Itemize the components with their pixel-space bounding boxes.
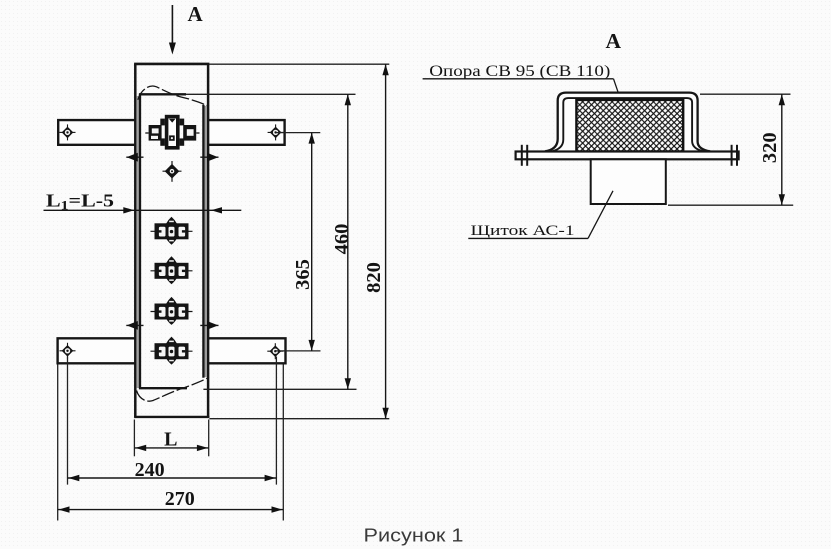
ext line 820 top bbox=[209, 63, 389, 65]
bottom dim 270 bbox=[58, 365, 284, 521]
dim line 365 bbox=[309, 133, 315, 351]
dim line 460 bbox=[345, 94, 351, 389]
svg-text:Опора СВ 95 (СВ 110): Опора СВ 95 (СВ 110) bbox=[429, 63, 610, 80]
small diamond bolt on panel bbox=[163, 161, 182, 182]
svg-text:270: 270 bbox=[165, 488, 195, 510]
leader to hatch bbox=[614, 79, 626, 115]
svg-text:А: А bbox=[188, 2, 204, 26]
svg-text:320: 320 bbox=[759, 132, 781, 163]
L1 dim line w/ arrows bbox=[44, 207, 242, 213]
outward arrows at pole edges, upper pair bbox=[126, 153, 218, 162]
bottom dim 240 bbox=[68, 357, 277, 485]
bolt on lower crossarm right end bbox=[267, 343, 283, 359]
svg-text:L: L bbox=[164, 428, 177, 450]
ext line 820 bottom bbox=[209, 418, 389, 420]
bolt on upper crossarm right end bbox=[268, 124, 284, 140]
bolt on lower crossarm left end bbox=[60, 343, 76, 359]
svg-text:460: 460 bbox=[331, 224, 353, 255]
upper crossarm (traverse) bbox=[58, 120, 284, 145]
leader to box bbox=[588, 191, 613, 239]
dim line 820 bbox=[382, 64, 388, 419]
plate end ticks left bbox=[521, 145, 523, 166]
panel (shchitok) edges bbox=[136, 94, 207, 388]
pole break curve (top) bbox=[138, 86, 208, 106]
svg-text:Щиток АС-1: Щиток АС-1 bbox=[471, 222, 575, 239]
ext line 460 top bbox=[186, 93, 356, 95]
lower crossarm (traverse) bbox=[58, 338, 286, 363]
wire clamp 1 bbox=[151, 217, 193, 245]
wire clamp 2 bbox=[151, 256, 193, 284]
ext line 460 bottom bbox=[203, 388, 356, 390]
section arrow A (top) bbox=[169, 5, 176, 55]
channel bracket inner bbox=[552, 98, 704, 151]
pole break curve (bottom) bbox=[137, 378, 208, 401]
ext line 365 bottom (from lower right bolt) bbox=[276, 350, 321, 352]
ext line 365 top (from upper right bolt) bbox=[276, 132, 320, 134]
plate (traverse top) bbox=[516, 152, 739, 160]
pole cross-section hatch bbox=[576, 100, 683, 152]
svg-text:Рисунок 1: Рисунок 1 bbox=[364, 525, 464, 546]
pole body (opora) bbox=[134, 64, 209, 417]
svg-text:365: 365 bbox=[292, 259, 314, 290]
big coupling clamp at panel top bbox=[145, 117, 199, 148]
outward arrows at pole edges, lower pair bbox=[126, 321, 218, 330]
svg-text:А: А bbox=[606, 29, 622, 53]
svg-text:L1=L-5: L1=L-5 bbox=[46, 191, 114, 213]
channel bracket outer bbox=[545, 93, 710, 152]
bottom dim L bbox=[134, 420, 208, 457]
shchitok AC-1 box bbox=[591, 159, 666, 204]
wire clamp 3 bbox=[151, 297, 193, 325]
plate end ticks right bbox=[731, 145, 733, 166]
wire clamp 4 bbox=[151, 337, 193, 365]
svg-text:240: 240 bbox=[135, 459, 165, 481]
bolt on upper crossarm left end bbox=[60, 124, 76, 140]
svg-text:820: 820 bbox=[363, 262, 385, 293]
dim 320 bbox=[700, 93, 791, 95]
